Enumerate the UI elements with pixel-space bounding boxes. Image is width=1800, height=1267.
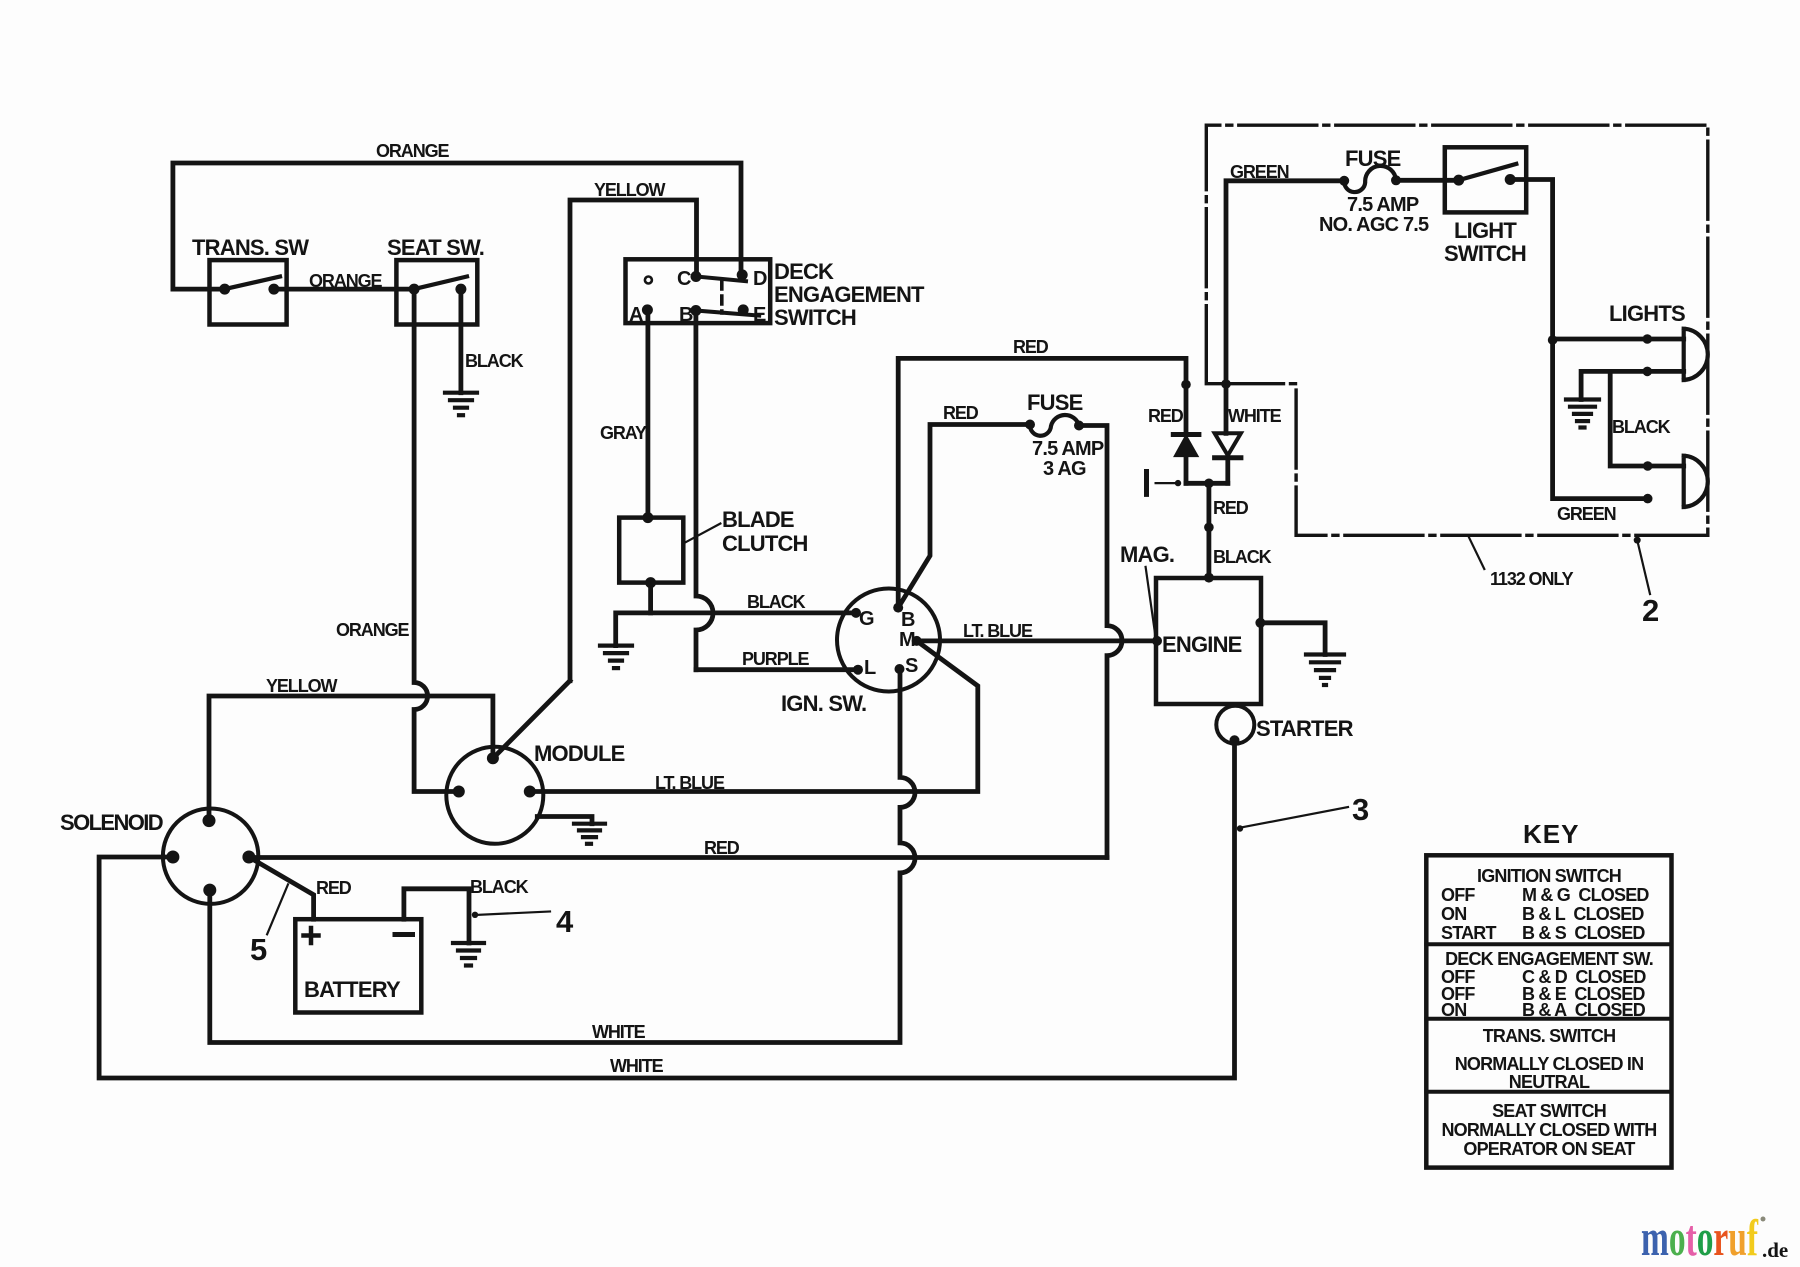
solenoid left terminal [166, 851, 179, 864]
svg-text:A: A [629, 304, 643, 326]
svg-text:ORANGE: ORANGE [336, 620, 409, 640]
svg-text:BLADE: BLADE [722, 507, 794, 532]
svg-text:TRANS. SW: TRANS. SW [192, 235, 309, 260]
light switch right terminal [1505, 174, 1516, 185]
svg-text:ENGAGEMENT: ENGAGEMENT [774, 282, 925, 307]
svg-text:4: 4 [556, 904, 574, 939]
svg-text:BLACK: BLACK [465, 351, 524, 371]
svg-text:BLACK: BLACK [747, 592, 806, 612]
ign terminal B [893, 603, 903, 613]
svg-text:B & S CLOSED: B & S CLOSED [1522, 923, 1645, 943]
op: ignition switch circle U-IGN [837, 589, 940, 692]
component BLADE CLUTCH box [619, 518, 683, 583]
svg-text:LIGHT: LIGHT [1454, 218, 1517, 243]
trans switch arm [225, 277, 280, 290]
switch SEAT SW box [396, 260, 477, 324]
fuse F1 AGC symbol [1344, 166, 1396, 192]
svg-text:SWITCH: SWITCH [1444, 241, 1526, 266]
seat switch pivot terminal [409, 284, 420, 295]
ground module [574, 824, 605, 844]
svg-text:FUSE: FUSE [1027, 390, 1083, 415]
svg-text:1132 ONLY: 1132 ONLY [1490, 569, 1574, 589]
wire fuse to light switch [1396, 178, 1459, 183]
wire YELLOW top run [570, 200, 697, 681]
svg-text:RED: RED [1148, 406, 1184, 426]
svg-text:PURPLE: PURPLE [742, 649, 810, 669]
svg-text:MAG.: MAG. [1120, 542, 1174, 567]
logo motoruf.de [1641, 1210, 1788, 1267]
svg-text:WHITE: WHITE [592, 1022, 646, 1042]
wire ORANGE top run [173, 163, 741, 289]
svg-text:B: B [679, 304, 693, 326]
lamp L1 symbol [1684, 329, 1708, 380]
component ENGINE box [1156, 578, 1261, 704]
wire YELLOW low run solenoid to module [209, 696, 493, 821]
light switch arm [1459, 164, 1517, 180]
callout 2 leader [1637, 540, 1650, 594]
diode CR1 RED (filled) [1173, 432, 1199, 437]
svg-text:7.5 AMP: 7.5 AMP [1347, 194, 1419, 216]
svg-text:STARTER: STARTER [1256, 716, 1354, 741]
svg-text:OFF: OFF [1441, 885, 1475, 905]
svg-text:3: 3 [1352, 792, 1369, 827]
lamp L1 terminal dots [1643, 334, 1653, 344]
svg-text:NORMALLY CLOSED WITH: NORMALLY CLOSED WITH [1441, 1120, 1656, 1140]
lamp L2 symbol [1684, 456, 1708, 507]
blade clutch bottom terminal [645, 577, 656, 588]
svg-text:FUSE: FUSE [1345, 146, 1401, 171]
solenoid top terminal [203, 814, 216, 827]
svg-text:DECK ENGAGEMENT SW.: DECK ENGAGEMENT SW. [1445, 949, 1653, 969]
wire BLACK lamp1 to lamp2 [1610, 371, 1684, 466]
svg-text:S: S [905, 655, 918, 677]
starter bottom terminal [1230, 735, 1240, 745]
wire RED/BLACK diode junction down to engine [1207, 483, 1212, 577]
svg-text:NORMALLY CLOSED IN: NORMALLY CLOSED IN [1455, 1054, 1644, 1074]
wire light switch to lamps [1510, 180, 1648, 499]
trans switch pivot terminal [219, 284, 230, 295]
svg-text:RED: RED [943, 403, 979, 423]
wire RED ign B up to top run [898, 358, 1186, 607]
node junction dot red diode top [1181, 380, 1191, 390]
node diode junction dot [1204, 479, 1214, 489]
svg-text:SEAT SW.: SEAT SW. [387, 235, 484, 260]
ign terminal G [851, 608, 861, 618]
svg-text:SEAT SWITCH: SEAT SWITCH [1492, 1101, 1606, 1121]
svg-text:KEY: KEY [1523, 819, 1579, 849]
wire module ground stub [537, 817, 592, 824]
svg-text:NEUTRAL: NEUTRAL [1509, 1072, 1590, 1092]
battery minus sign [395, 932, 413, 937]
switch LIGHT SWITCH box [1445, 147, 1526, 212]
wire BLACK seat switch to ground [458, 289, 463, 393]
svg-text:RED: RED [1013, 337, 1049, 357]
svg-text:ON: ON [1441, 904, 1466, 924]
1132 only leader [1469, 537, 1485, 569]
engine top terminal [1204, 573, 1214, 583]
svg-text:L: L [864, 657, 876, 679]
svg-text:ORANGE: ORANGE [376, 141, 449, 161]
wire LT. BLUE ign M to engine [917, 639, 1157, 644]
callout 3 leader [1241, 807, 1348, 828]
component BATTERY box [295, 919, 421, 1012]
mag leader line [1146, 567, 1156, 635]
wire orange to trans switch [173, 287, 225, 292]
wire RED solenoid to battery plus [249, 857, 314, 919]
svg-text:RED: RED [1213, 498, 1249, 518]
deck terminal B [690, 305, 701, 316]
table KEY box [1426, 855, 1671, 1167]
wire lamp1 return to ground [1581, 371, 1684, 399]
deck terminal A [642, 304, 653, 315]
node connector dot [1204, 523, 1214, 533]
lamp L2 terminal dots [1643, 461, 1653, 471]
svg-text:OPERATOR ON SEAT: OPERATOR ON SEAT [1463, 1139, 1635, 1159]
svg-text:M & G CLOSED: M & G CLOSED [1522, 885, 1649, 905]
ground engine [1306, 655, 1344, 686]
wire diode junction bracket [1186, 481, 1228, 486]
svg-text:START: START [1441, 923, 1496, 943]
svg-text:BLACK: BLACK [1612, 417, 1671, 437]
svg-text:M: M [899, 629, 915, 651]
op: MODULE circle [446, 747, 543, 844]
svg-text:BLACK: BLACK [470, 877, 529, 897]
callout 1 marker [1144, 472, 1149, 495]
wire GREEN light circuit feed [1226, 181, 1344, 384]
label DECK ENGAGEMENT SWITCH [774, 259, 925, 330]
svg-text:B & L CLOSED: B & L CLOSED [1522, 904, 1644, 924]
svg-text:.de: .de [1762, 1238, 1788, 1262]
deck terminal E [738, 304, 749, 315]
ign terminal S [895, 664, 905, 674]
table KEY text [1441, 866, 1657, 1159]
svg-text:NO. AGC 7.5: NO. AGC 7.5 [1319, 214, 1429, 236]
svg-text:ENGINE: ENGINE [1162, 632, 1242, 657]
deck terminal C [691, 271, 702, 282]
engine left terminal (mag) [1152, 636, 1162, 646]
wire blade clutch to black wire [648, 583, 653, 613]
wire PURPLE to ignition L [696, 667, 858, 672]
wire red ign B diagonal to fuse branch [898, 425, 1030, 608]
wire ORANGE between switches [274, 287, 414, 292]
svg-text:LT. BLUE: LT. BLUE [655, 773, 725, 793]
blade clutch top terminal [642, 512, 653, 523]
deck switch arm B-E [696, 311, 759, 316]
svg-text:IGNITION SWITCH: IGNITION SWITCH [1477, 866, 1621, 886]
border 1132-only dash-dot box [1206, 125, 1708, 535]
trans switch right terminal [268, 284, 279, 295]
svg-text:WHITE: WHITE [1228, 406, 1282, 426]
op: SOLENOID circle [163, 809, 258, 904]
svg-text:YELLOW: YELLOW [266, 676, 338, 696]
svg-text:SOLENOID: SOLENOID [60, 810, 163, 835]
wire WHITE starter to solenoid left [99, 740, 1234, 1078]
wire engine right to ground [1260, 623, 1325, 655]
svg-text:BLACK: BLACK [1213, 547, 1272, 567]
ground lights [1566, 400, 1599, 428]
op: STARTER circle [1216, 706, 1254, 744]
svg-text:ON: ON [1441, 1000, 1466, 1020]
wire deck B down to purple (hop over black) [696, 311, 713, 670]
ground blade clutch black wire [600, 646, 632, 669]
callout 5 leader [267, 884, 288, 934]
module left terminal [453, 786, 465, 798]
seat switch arm [414, 277, 467, 290]
wire BLACK battery minus to ground [404, 889, 469, 943]
deck terminal D [737, 269, 748, 280]
wire ORANGE seat switch down to module (with hop over yellow) [414, 289, 459, 791]
blade clutch leader line [686, 524, 721, 543]
svg-text:RED: RED [704, 838, 740, 858]
deck switch unconnected terminal circle [645, 277, 652, 284]
svg-text:RED: RED [316, 878, 352, 898]
svg-text:motoruf: motoruf [1641, 1210, 1758, 1267]
svg-text:GREEN: GREEN [1230, 162, 1289, 182]
deck switch arm C-D [696, 277, 746, 282]
wire RED solenoid to fuse vertical (S wire hops over this) [249, 855, 1107, 860]
wire GRAY deck A to blade clutch [646, 310, 651, 518]
svg-text:DECK: DECK [774, 259, 834, 284]
svg-text:MODULE: MODULE [534, 741, 625, 766]
ign terminal L [853, 665, 863, 675]
svg-text:LIGHTS: LIGHTS [1609, 301, 1685, 326]
switch DECK ENGAGEMENT box [626, 259, 771, 323]
solenoid bottom terminal [203, 884, 216, 897]
svg-text:D: D [753, 268, 767, 290]
svg-text:7.5 AMP: 7.5 AMP [1032, 438, 1104, 460]
module top terminal [487, 752, 499, 764]
svg-text:GRAY: GRAY [600, 423, 647, 443]
fuse F2 3AG symbol [1030, 415, 1079, 436]
svg-text:3 AG: 3 AG [1043, 458, 1086, 480]
label BLADE CLUTCH [722, 507, 808, 556]
ign terminal M [912, 636, 922, 646]
wire BLACK to ignition G [616, 613, 856, 646]
svg-text:2: 2 [1642, 593, 1659, 628]
solenoid right terminal [242, 851, 255, 864]
svg-text:5: 5 [250, 932, 267, 967]
node lamp branch junction [1548, 335, 1558, 345]
deck switch mechanical link (dashed) [720, 281, 724, 313]
module right terminal [524, 786, 536, 798]
svg-text:LT. BLUE: LT. BLUE [963, 621, 1033, 641]
label LIGHT SWITCH [1444, 218, 1526, 266]
callout 4 leader [478, 912, 550, 915]
switch TRANS. SW box [210, 260, 287, 324]
svg-text:IGN. SW.: IGN. SW. [781, 691, 866, 716]
svg-text:GREEN: GREEN [1557, 504, 1616, 524]
svg-text:C: C [677, 268, 691, 290]
wire WHITE solenoid bottom to ign S (hops over lt.blue and red) [210, 669, 915, 1043]
svg-text:G: G [859, 608, 874, 630]
svg-text:SWITCH: SWITCH [774, 305, 856, 330]
node white/green border junction [1221, 379, 1231, 389]
svg-text:WHITE: WHITE [610, 1056, 664, 1076]
wire branch to lamp1 [1553, 337, 1684, 342]
seat switch right terminal [455, 284, 466, 295]
diode CR2 WHITE (open) [1215, 433, 1241, 455]
wire red fuse to long vertical (hop over lt.blue) [1079, 426, 1122, 858]
wire WHITE down to diode [1224, 384, 1229, 433]
svg-text:YELLOW: YELLOW [594, 180, 666, 200]
ground battery [453, 943, 484, 966]
wire lt.blue ign M diagonal to module run [530, 641, 978, 792]
battery plus sign [304, 928, 319, 943]
wire yellow diagonal to module top [493, 681, 570, 759]
svg-text:BATTERY: BATTERY [304, 977, 401, 1002]
light switch pivot terminal [1453, 175, 1464, 186]
engine right terminal [1255, 618, 1265, 628]
svg-text:B: B [901, 609, 915, 631]
svg-text:ORANGE: ORANGE [309, 271, 382, 291]
svg-text:CLUTCH: CLUTCH [722, 531, 808, 556]
ground seat switch [445, 393, 477, 416]
svg-text:TRANS. SWITCH: TRANS. SWITCH [1483, 1026, 1616, 1046]
svg-text:B & A CLOSED: B & A CLOSED [1522, 1000, 1646, 1020]
